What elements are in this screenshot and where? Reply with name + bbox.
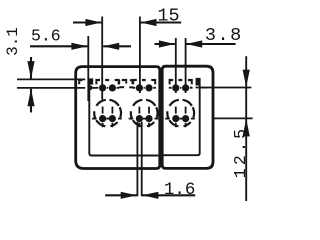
mounting boss B dashed circle (156, 107, 157, 117)
dim 15 right arrow (141, 19, 157, 26)
solid rectangular pin P14 (right) (196, 78, 201, 86)
svg-text:3.8: 3.8 (205, 25, 243, 46)
extension line pin P1 (87, 36, 89, 101)
pin pads B1/B2 dashed outline (132, 79, 137, 81)
dash left of pin P14 (190, 80, 192, 82)
left relay body outline (76, 67, 160, 169)
dashes beside pin P14 (190, 87, 192, 89)
dash right of pin P1 (92, 87, 95, 89)
svg-text:5.6: 5.6 (31, 26, 61, 45)
dim 12.5 up arrow (243, 119, 250, 136)
left body inner contour (89, 84, 158, 156)
svg-text:1.6: 1.6 (164, 180, 196, 200)
extension line top pin row right (196, 87, 252, 89)
mounting boss A dashed circle (120, 107, 121, 117)
pin bottom hole B1 (136, 115, 143, 122)
extension line pin C2 (185, 38, 187, 93)
extension line bottom pin row right (213, 117, 253, 119)
extension line pin C1 (175, 38, 177, 93)
pin C1 top hole (172, 84, 179, 91)
pin P1 centre blob (88, 86, 93, 91)
right body inner contour (163, 85, 199, 155)
right relay body outline (162, 66, 213, 168)
dim 3.1 line upper segment (30, 57, 32, 79)
pin C2 top hole (182, 84, 189, 91)
dim 12.5 down arrow (243, 70, 250, 88)
dim 3.1 up arrow (27, 89, 34, 107)
dim 5.6 right arrow (103, 43, 119, 50)
svg-text:3.1: 3.1 (4, 27, 22, 56)
pin B2 top hole (145, 84, 152, 91)
left pad row end dash (78, 79, 82, 81)
dim 3.1 line lower segment (30, 89, 32, 113)
dim 15 line left segment (73, 21, 101, 23)
pin pads C1/C2 dashed outline (169, 79, 174, 81)
dim 3.8 right arrow (186, 40, 202, 47)
dim 5.6 line right segment (103, 45, 131, 47)
dim 1.6 extension lines pin width (136, 122, 138, 197)
dim 1.6 right arrow (142, 192, 158, 199)
extension line pin B1 (139, 17, 141, 94)
dim 12.5 line (245, 56, 247, 201)
dim 1.6 line right segment (142, 194, 195, 196)
unused pin position dashed pad (118, 80, 120, 85)
dim 1.6 left arrow (121, 192, 137, 199)
dim 15 left arrow (85, 19, 101, 26)
pin B1 top hole (136, 84, 143, 91)
pin bottom hole C2 (182, 115, 189, 122)
dim 3.8 line left segment (155, 43, 175, 45)
dim 5.6 left arrow (71, 43, 87, 50)
extension line pin A1 (101, 17, 103, 100)
extension line pad top (17, 78, 85, 80)
boss B centerline ticks (138, 107, 140, 114)
pin A2 top hole (109, 84, 116, 91)
svg-text:12.5: 12.5 (231, 126, 250, 178)
dim 3.8 left arrow (159, 40, 175, 47)
dim 3.8 line right segment (186, 43, 235, 45)
dim 5.6 line left segment (30, 45, 87, 47)
pin bottom hole A2 (109, 115, 116, 122)
boss C centerline ticks (175, 107, 177, 114)
dim 1.6 line left segment (105, 194, 137, 196)
svg-text:15: 15 (157, 5, 179, 26)
pin A1 top hole (99, 84, 106, 91)
pin bottom hole C1 (172, 115, 179, 122)
mounting boss C dashed circle (193, 107, 194, 117)
solid rectangular pin P1 (left) (88, 78, 93, 84)
pin bottom hole A1 (99, 115, 106, 122)
extension line pin row (17, 87, 85, 89)
dim 3.1 down arrow (27, 61, 34, 79)
dim 15 line right segment (141, 21, 182, 23)
pin bottom hole B2 (145, 115, 152, 122)
pin pads A1/A2 dashed outline (95, 79, 100, 81)
boss A centerline ticks (102, 107, 104, 114)
